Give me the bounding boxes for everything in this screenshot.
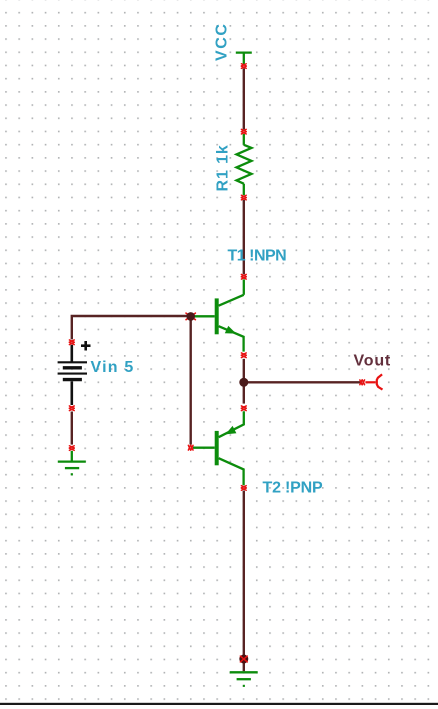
svg-text:T2 !PNP: T2 !PNP — [263, 480, 323, 497]
svg-text:R1 1k: R1 1k — [215, 144, 232, 191]
svg-text:VCC: VCC — [214, 22, 231, 61]
svg-text:Vin 5: Vin 5 — [91, 359, 135, 376]
svg-text:T1 !NPN: T1 !NPN — [228, 248, 287, 265]
svg-text:Vout: Vout — [354, 353, 392, 370]
